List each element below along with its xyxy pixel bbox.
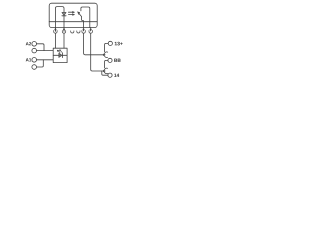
label A2 xyxy=(26,42,31,45)
pin 2 plug arrow and socket cup xyxy=(63,28,65,31)
LED lead right xyxy=(63,54,68,56)
label BB xyxy=(114,59,120,62)
wire terminal 14 to fork junction xyxy=(102,71,108,75)
module/base divider xyxy=(49,21,97,23)
socket fork for NO xyxy=(104,68,108,73)
coil wire with suppressor diode D1 xyxy=(55,7,64,32)
terminal 13 circle xyxy=(108,41,112,45)
socket fork for COM xyxy=(104,52,108,57)
terminal 14 circle xyxy=(108,73,112,77)
label A1 xyxy=(26,58,32,61)
LED lead left xyxy=(53,54,59,56)
pin 6 plug arrow and socket cup xyxy=(90,28,92,31)
diode D1 body xyxy=(62,12,66,15)
label 13+ xyxy=(115,42,123,46)
unused socket cup 3 xyxy=(71,31,74,33)
LED D2 body xyxy=(59,53,62,57)
pin 1 plug arrow and socket cup xyxy=(54,28,56,31)
wire bridged terminal to input box xyxy=(37,50,54,52)
label 14 xyxy=(114,74,119,77)
bridged terminal below A2 xyxy=(32,48,37,53)
wire terminal 13 down to socket fork xyxy=(105,43,109,51)
input indicator box xyxy=(53,48,67,62)
wire terminal BB down to socket fork xyxy=(105,60,108,68)
wire COM from pin 5 to terminal 13 xyxy=(84,33,104,55)
wire A1 to input box xyxy=(37,59,54,61)
wire A2 to rail xyxy=(37,44,45,51)
bridged terminal below A1 xyxy=(32,65,37,70)
wire bridged terminal up to A1 wire xyxy=(37,60,44,67)
relay module box U1 xyxy=(49,3,97,27)
unused socket cup 4 xyxy=(77,31,80,33)
pin 5 plug arrow and socket cup xyxy=(83,28,85,31)
LED emission arrows xyxy=(57,50,60,53)
terminal A2 circle xyxy=(32,42,37,47)
terminal A1 circle xyxy=(32,58,37,63)
wire NO from pin 6 to terminal 14 xyxy=(91,33,104,71)
relay contact K1 xyxy=(79,14,83,28)
terminal BB circle xyxy=(108,58,112,62)
actuation arrows xyxy=(68,11,72,13)
